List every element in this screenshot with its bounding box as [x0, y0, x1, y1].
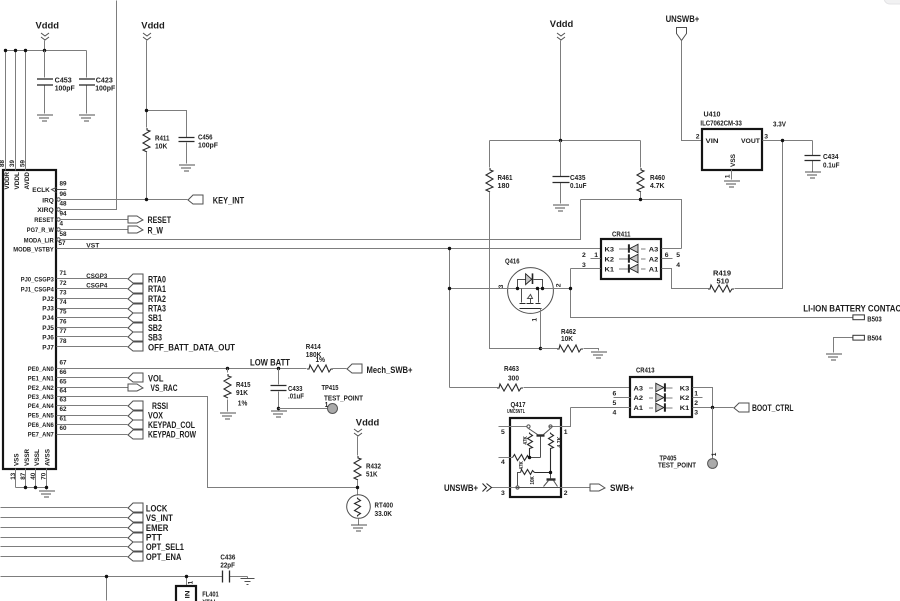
- svg-text:OPT_ENA: OPT_ENA: [146, 552, 182, 562]
- svg-text:64: 64: [60, 387, 68, 394]
- svg-text:60: 60: [60, 425, 68, 432]
- svg-text:A3: A3: [634, 385, 644, 392]
- svg-text:C436: C436: [220, 554, 235, 561]
- svg-text:100pF: 100pF: [95, 85, 116, 92]
- svg-text:K3: K3: [605, 246, 615, 253]
- pin VSSR 87: [20, 449, 31, 488]
- svg-text:KEY_INT: KEY_INT: [213, 196, 245, 206]
- wire UNSWB+ to VIN: [682, 41, 703, 141]
- svg-text:C453: C453: [55, 77, 72, 84]
- resistor R460 4.7K: [637, 141, 665, 200]
- svg-text:48: 48: [60, 200, 68, 207]
- svg-text:R_W: R_W: [148, 225, 164, 235]
- port VS_RAC: [128, 383, 178, 393]
- svg-text:77: 77: [60, 328, 68, 335]
- svg-text:58: 58: [60, 231, 68, 238]
- capacitor C435 0.1uF: [553, 141, 588, 204]
- transistor Q416: [498, 259, 563, 322]
- svg-text:33.0K: 33.0K: [375, 511, 393, 518]
- svg-text:SB3: SB3: [148, 332, 162, 342]
- svg-text:OFF_BATT_DATA_OUT: OFF_BATT_DATA_OUT: [148, 342, 235, 352]
- svg-text:10K: 10K: [530, 476, 536, 485]
- regulator U410 ILC7062CM-33: [696, 112, 769, 179]
- svg-text:75: 75: [60, 309, 68, 316]
- node VST junctions: [448, 247, 451, 250]
- port VOL: [128, 373, 164, 383]
- svg-text:PG7_R_W: PG7_R_W: [27, 227, 55, 234]
- svg-text:LI-ION BATTERY CONTACTS: LI-ION BATTERY CONTACTS: [803, 304, 900, 314]
- svg-text:RSSI: RSSI: [152, 401, 168, 411]
- svg-text:C456: C456: [198, 134, 213, 141]
- node Vddd rail junction: [559, 139, 562, 142]
- diode CR413-3: [649, 383, 673, 391]
- ground C433: [271, 411, 287, 417]
- svg-text:TP405: TP405: [660, 455, 677, 462]
- node R411/C456 junction: [145, 109, 148, 112]
- port KEY_INT: [188, 195, 244, 206]
- ground C423: [79, 115, 95, 121]
- svg-text:PE3_AN3: PE3_AN3: [28, 394, 54, 401]
- port RTA3: [128, 304, 166, 314]
- svg-text:CR411: CR411: [612, 232, 631, 239]
- svg-text:57: 57: [59, 240, 67, 247]
- svg-text:CSGP4: CSGP4: [86, 283, 107, 290]
- wire VS_INT: [1, 517, 128, 519]
- pin PE3_AN3 64 wire loop: [28, 387, 358, 487]
- test point TP405: [658, 408, 718, 470]
- svg-text:LOW BATT: LOW BATT: [250, 358, 290, 368]
- svg-text:76: 76: [60, 318, 68, 325]
- svg-text:PJ1_CSGP4: PJ1_CSGP4: [21, 286, 54, 293]
- pin PJ5 76: [42, 318, 127, 332]
- svg-text:2: 2: [694, 400, 698, 407]
- svg-text:1: 1: [594, 252, 598, 259]
- svg-text:VS_INT: VS_INT: [146, 513, 173, 523]
- svg-text:VSSL: VSSL: [34, 449, 41, 466]
- svg-text:65: 65: [60, 379, 68, 386]
- node Q416 internal: [516, 287, 519, 290]
- wire Vddd bus top-left: [6, 41, 87, 171]
- svg-text:EMER: EMER: [146, 523, 169, 533]
- pin MODB_VSTBY 57 wire VST: [13, 240, 600, 254]
- svg-text:4: 4: [613, 410, 617, 417]
- svg-text:78: 78: [60, 338, 68, 345]
- svg-text:A3: A3: [649, 246, 659, 253]
- svg-text:A1: A1: [649, 267, 659, 274]
- pin VDDR 88: [0, 159, 11, 189]
- svg-text:AVDD: AVDD: [24, 172, 31, 190]
- port UNSWB+ bottom: [444, 483, 492, 493]
- port OPT_SEL1: [128, 542, 184, 552]
- svg-text:VDDL: VDDL: [14, 172, 21, 190]
- svg-text:PE4_AN4: PE4_AN4: [28, 403, 54, 410]
- svg-text:K1: K1: [605, 267, 615, 274]
- svg-text:3: 3: [582, 262, 586, 269]
- wire VOUT 3.3V: [763, 140, 813, 142]
- svg-text:6: 6: [613, 390, 617, 397]
- port SB1: [128, 313, 162, 323]
- svg-text:1%: 1%: [316, 357, 326, 364]
- Q417 internals: [513, 425, 563, 489]
- svg-text:4.7K: 4.7K: [650, 183, 665, 190]
- port SB2: [128, 323, 162, 333]
- svg-text:300: 300: [508, 375, 519, 382]
- svg-text:PJ3: PJ3: [42, 306, 54, 313]
- svg-text:R415: R415: [236, 382, 251, 389]
- capacitor C453: [37, 51, 75, 114]
- wire oscillator line: [1, 577, 248, 601]
- svg-text:59: 59: [19, 159, 26, 167]
- svg-text:3: 3: [764, 134, 768, 141]
- svg-text:2: 2: [555, 283, 562, 287]
- ground B504: [826, 354, 842, 360]
- node R460 junction: [639, 198, 642, 201]
- resistor R415 91K 1%: [224, 369, 251, 412]
- pin stubs CR413 right: [693, 388, 734, 417]
- node Q416 pin2 junction: [569, 287, 572, 290]
- pin PE0_AN0 67 wire LOW BATT: [28, 360, 307, 374]
- ground R415: [220, 413, 236, 419]
- node 3.3V junction: [781, 139, 784, 142]
- ground R462: [591, 352, 607, 358]
- svg-text:510: 510: [717, 279, 730, 286]
- svg-text:KEYPAD_COL: KEYPAD_COL: [148, 420, 195, 430]
- svg-text:100pF: 100pF: [55, 85, 76, 92]
- power Vddd 1: [36, 21, 60, 40]
- node C433 ground junction: [277, 407, 280, 410]
- svg-text:VOX: VOX: [148, 411, 164, 421]
- thermistor RT400 33.0K: [347, 495, 393, 519]
- crystal filter FL401: [176, 580, 219, 601]
- svg-text:R460: R460: [650, 175, 665, 182]
- wire VST branch down: [449, 249, 451, 388]
- svg-text:39: 39: [9, 159, 16, 167]
- ground C436: [241, 577, 255, 585]
- pin stubs CR411 left: [571, 252, 601, 269]
- pin PJ1_CSGP4 72: [21, 280, 128, 294]
- svg-text:B503: B503: [867, 317, 882, 324]
- svg-text:PJ6: PJ6: [42, 335, 54, 342]
- svg-text:96: 96: [60, 191, 68, 198]
- svg-text:Vddd: Vddd: [356, 418, 380, 428]
- wire Vddd2 to R411/C456: [147, 41, 187, 138]
- wire PTT: [1, 537, 128, 539]
- svg-text:OPT_SEL1: OPT_SEL1: [146, 542, 184, 552]
- svg-text:ECLK: ECLK: [32, 187, 50, 194]
- battery contact B503: [853, 315, 882, 324]
- svg-text:K1: K1: [680, 405, 690, 412]
- pin AVSS 70: [41, 448, 52, 487]
- port SB3: [128, 332, 162, 342]
- pin PE2_AN2 65: [28, 379, 128, 393]
- svg-text:3: 3: [498, 284, 505, 288]
- svg-text:TP415: TP415: [322, 385, 339, 392]
- svg-text:91K: 91K: [236, 390, 248, 397]
- svg-text:VOUT: VOUT: [741, 138, 760, 145]
- svg-text:FL401: FL401: [202, 591, 219, 598]
- port RTA1: [128, 284, 166, 294]
- diode CR411-1: [619, 264, 646, 272]
- node osc junctions: [105, 575, 108, 578]
- pin 4 Q417: [499, 458, 513, 467]
- svg-text:A2: A2: [634, 395, 644, 402]
- svg-text:RT400: RT400: [375, 503, 394, 510]
- svg-text:R432: R432: [366, 463, 381, 470]
- diode CR413-1: [649, 403, 673, 411]
- svg-text:1%: 1%: [238, 400, 248, 407]
- svg-text:2: 2: [564, 490, 568, 497]
- pin PJ6 77: [42, 328, 127, 342]
- svg-text:2: 2: [582, 252, 586, 259]
- wire Q416 gate: [540, 309, 542, 349]
- svg-text:TEST_POINT: TEST_POINT: [324, 395, 364, 402]
- capacitor C433 .01uF: [271, 369, 305, 409]
- svg-text:3.3V: 3.3V: [773, 122, 786, 129]
- svg-text:SB2: SB2: [148, 323, 162, 333]
- svg-text:22pF: 22pF: [220, 562, 235, 569]
- svg-text:XIRQ: XIRQ: [37, 207, 54, 214]
- pin 1 Q417: [550, 408, 571, 436]
- svg-text:0.1uF: 0.1uF: [823, 163, 840, 170]
- diode array CR413: [630, 368, 692, 417]
- svg-text:SB1: SB1: [148, 313, 162, 323]
- pin PJ7 78: [42, 338, 127, 352]
- svg-text:UNSWB+: UNSWB+: [444, 483, 478, 493]
- svg-text:UMC5NTL: UMC5NTL: [507, 409, 525, 415]
- capacitor C456 100pF: [179, 134, 219, 163]
- svg-text:5: 5: [676, 252, 680, 259]
- svg-text:62: 62: [60, 406, 68, 413]
- ground C435: [553, 205, 569, 211]
- svg-text:74: 74: [60, 299, 68, 306]
- pin PE7_AN7 60: [28, 425, 128, 439]
- svg-text:2: 2: [696, 134, 700, 141]
- svg-text:61: 61: [60, 416, 68, 423]
- svg-text:VDDR: VDDR: [4, 172, 11, 190]
- svg-text:A1: A1: [634, 405, 644, 412]
- pin XIRQ 48 wire to top: [37, 1, 116, 214]
- wire R460 node rail: [581, 200, 682, 249]
- capacitor C434 0.1uF: [805, 141, 841, 172]
- svg-text:KEYPAD_ROW: KEYPAD_ROW: [148, 430, 196, 440]
- svg-text:TEST_POINT: TEST_POINT: [658, 462, 697, 469]
- svg-text:K2: K2: [680, 395, 690, 402]
- svg-text:MODA_LIR: MODA_LIR: [24, 237, 54, 244]
- svg-text:PJ2: PJ2: [42, 296, 54, 303]
- svg-text:63: 63: [60, 397, 68, 404]
- pin 3 Q417: [492, 488, 516, 497]
- port R_W: [128, 225, 163, 235]
- port EMER: [128, 523, 169, 533]
- power Vddd 4: [550, 19, 574, 40]
- svg-text:VST: VST: [86, 243, 99, 250]
- svg-text:UNSWB+: UNSWB+: [666, 14, 700, 24]
- svg-text:BOOT_CTRL: BOOT_CTRL: [752, 403, 794, 413]
- pin PJ2 73: [42, 289, 127, 303]
- svg-text:MODB_VSTBY: MODB_VSTBY: [13, 246, 54, 253]
- svg-text:Vddd: Vddd: [550, 19, 574, 29]
- battery contact B504: [834, 335, 882, 352]
- port LOCK: [128, 503, 168, 513]
- svg-text:PJ5: PJ5: [42, 325, 54, 332]
- svg-text:94: 94: [60, 211, 68, 218]
- svg-text:R461: R461: [498, 175, 513, 182]
- node ground bus junctions: [24, 486, 27, 489]
- svg-text:RESET: RESET: [148, 215, 172, 225]
- port VS_INT: [128, 513, 173, 523]
- svg-text:1: 1: [532, 317, 539, 321]
- svg-text:CR413: CR413: [636, 368, 655, 375]
- svg-text:5: 5: [501, 429, 505, 436]
- svg-text:89: 89: [60, 181, 68, 188]
- svg-text:PE0_AN0: PE0_AN0: [28, 366, 54, 373]
- svg-text:73: 73: [60, 289, 68, 296]
- svg-text:R463: R463: [504, 366, 519, 373]
- svg-text:C434: C434: [823, 154, 839, 161]
- pin 5 Q417: [499, 427, 528, 436]
- power Vddd 3: [354, 418, 380, 436]
- svg-text:4: 4: [60, 221, 64, 228]
- resistor R432 51K: [354, 456, 381, 496]
- svg-text:VOL: VOL: [148, 373, 164, 383]
- node Vddd bus junctions: [4, 49, 7, 52]
- svg-text:3: 3: [694, 410, 698, 417]
- pin VSS 13 bottom: [10, 453, 21, 488]
- resistor R461 180: [486, 141, 541, 349]
- svg-text:PE5_AN5: PE5_AN5: [28, 413, 54, 420]
- port RSSI: [128, 401, 168, 411]
- svg-text:SWB+: SWB+: [610, 483, 634, 493]
- svg-text:Q416: Q416: [505, 259, 520, 266]
- svg-text:R419: R419: [713, 271, 731, 278]
- port KEYPAD_ROW: [128, 430, 196, 440]
- diode array CR411: [601, 232, 661, 279]
- svg-text:180: 180: [498, 183, 510, 190]
- svg-text:RTA2: RTA2: [148, 294, 166, 304]
- port KEYPAD_COL: [128, 420, 195, 430]
- diode CR413-2: [649, 393, 673, 401]
- svg-text:Q417: Q417: [511, 402, 526, 409]
- port OPT_ENA: [128, 552, 182, 562]
- pin RESET 94: [34, 211, 127, 225]
- pin VSSL 40: [30, 449, 41, 488]
- node gate junction: [539, 347, 542, 350]
- pin PJ0_CSGP3 71: [21, 270, 128, 284]
- microcontroller U400 body: [3, 170, 56, 469]
- node LOW BATT junctions: [226, 367, 229, 370]
- svg-text:VSS: VSS: [14, 453, 21, 466]
- capacitor C423: [79, 51, 116, 114]
- wire RT400 ground: [358, 519, 360, 525]
- svg-text:U410: U410: [704, 112, 721, 119]
- pin 2 Q417: [561, 488, 591, 497]
- diode CR411-3: [619, 244, 646, 252]
- resistor R411 10K: [143, 128, 170, 200]
- wire Vddd3 to R432: [357, 437, 359, 456]
- svg-text:R462: R462: [561, 329, 576, 336]
- svg-text:47K: 47K: [519, 461, 525, 470]
- svg-text:Vddd: Vddd: [141, 21, 165, 31]
- svg-text:10K: 10K: [155, 143, 167, 150]
- svg-text:10K: 10K: [561, 336, 573, 343]
- svg-text:RESET: RESET: [34, 217, 54, 224]
- svg-text:Vddd: Vddd: [36, 21, 60, 31]
- svg-text:A2: A2: [649, 257, 659, 264]
- svg-text:100pF: 100pF: [198, 143, 219, 150]
- pin VDDL 39: [9, 159, 21, 189]
- svg-text:PJ4: PJ4: [42, 315, 54, 322]
- wire EMER: [1, 527, 128, 529]
- svg-text:K3: K3: [680, 385, 690, 392]
- svg-text:C435: C435: [570, 175, 586, 182]
- node R432/RT400 junction: [356, 486, 359, 489]
- pin PE6_AN6 61: [28, 416, 128, 430]
- svg-text:ILC7062CM-33: ILC7062CM-33: [700, 120, 742, 127]
- svg-text:PJ7: PJ7: [42, 344, 54, 351]
- wire Vddd4 rail: [490, 41, 641, 141]
- svg-text:51K: 51K: [366, 471, 378, 478]
- svg-text:4: 4: [676, 262, 680, 269]
- svg-text:4.7K: 4.7K: [557, 436, 563, 447]
- transistor network Q417 UMC5NTL: [507, 402, 561, 497]
- svg-text:PJ0_CSGP3: PJ0_CSGP3: [21, 277, 54, 284]
- svg-text:88: 88: [0, 159, 6, 167]
- port PTT: [128, 533, 162, 543]
- pin PE5_AN5 62: [28, 406, 128, 420]
- ground IC: [39, 491, 55, 497]
- resistor R463 300: [450, 366, 631, 391]
- svg-text:PE7_AN7: PE7_AN7: [28, 432, 54, 439]
- ground RT400: [351, 525, 367, 531]
- node R411-IRQ junction: [145, 198, 148, 201]
- svg-text:RTA3: RTA3: [148, 304, 166, 314]
- wire Q416 pin2 to K1/B503: [553, 269, 853, 318]
- svg-text:C423: C423: [96, 77, 113, 84]
- svg-text:Mech_SWB+: Mech_SWB+: [367, 365, 413, 375]
- svg-text:VIN: VIN: [706, 138, 719, 145]
- pin PE4_AN4 63: [28, 397, 128, 411]
- wire U410 VSS: [731, 170, 733, 180]
- svg-text:PE2_AN2: PE2_AN2: [28, 385, 54, 392]
- svg-text:67: 67: [60, 360, 68, 367]
- svg-text:VSS: VSS: [730, 153, 737, 167]
- port RESET: [128, 215, 171, 225]
- svg-text:RTA0: RTA0: [148, 275, 166, 285]
- svg-text:66: 66: [60, 369, 68, 376]
- svg-text:47K: 47K: [523, 436, 529, 445]
- resistor R462 10K: [541, 329, 599, 352]
- svg-text:1: 1: [325, 402, 329, 409]
- ground C453: [37, 115, 53, 121]
- resistor R419 510: [662, 141, 783, 293]
- ground C434: [805, 172, 821, 178]
- svg-text:AVSS: AVSS: [44, 448, 51, 466]
- svg-text:RTA1: RTA1: [148, 284, 166, 294]
- svg-text:B504: B504: [867, 336, 882, 343]
- port OFF_BATT_DATA_OUT: [128, 342, 235, 352]
- port BOOT_CTRL: [734, 403, 794, 413]
- wire ground bus bottom: [16, 488, 47, 490]
- diode CR411-2: [619, 254, 646, 262]
- svg-text:1: 1: [564, 429, 568, 436]
- corner UI tab: [884, 0, 900, 4]
- svg-text:PE1_AN1: PE1_AN1: [28, 376, 54, 383]
- svg-text:1: 1: [711, 452, 718, 456]
- svg-text:1: 1: [187, 580, 194, 584]
- port RTA2: [128, 294, 166, 304]
- pin IRQ 96 wire KEY_INT: [42, 191, 187, 205]
- pin AVDD 59: [19, 159, 31, 189]
